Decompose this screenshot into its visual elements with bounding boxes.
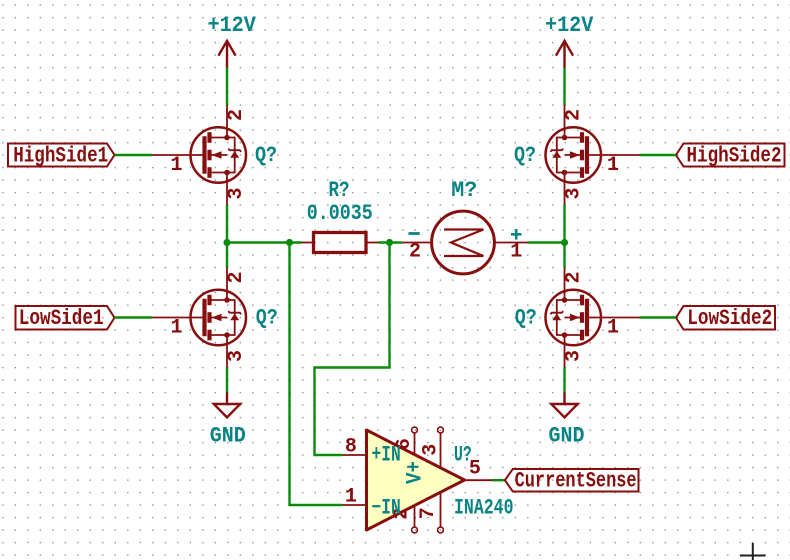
wire +12V to Q1 drain [226, 68, 228, 106]
transistor Q4 low-side right (mirrored) [546, 268, 640, 368]
junction node bus-left [223, 239, 230, 246]
global label HighSide1 [8, 143, 115, 168]
svg-text:GND: GND [210, 424, 246, 449]
svg-text:V+: V+ [403, 461, 428, 484]
power symbol +12V right [545, 13, 594, 68]
wire +12V to Q2 drain [563, 68, 565, 106]
transistor Q2 texts: Q? and pins 1 2 3 [514, 109, 619, 200]
transistor Q3 texts: Q? and pins 1 2 3 [170, 271, 277, 362]
svg-text:LowSide1: LowSide1 [19, 306, 104, 331]
wire Q1 source to bus [226, 205, 228, 243]
op-amp U1 reference U? and value INA240 [454, 443, 514, 521]
op-amp U1 pin numbers 8 1 5 6 3 2 7 [345, 436, 481, 520]
power symbol +12V left [207, 13, 256, 68]
wire Q2 gate to HighSide2 [640, 154, 677, 156]
svg-text:1: 1 [607, 317, 619, 340]
svg-text:2: 2 [409, 241, 421, 264]
wire sense left: resistor left terminal down to op-amp -IN [290, 243, 343, 506]
junction node bus-right [561, 239, 568, 246]
transistor Q1 high-side left [152, 105, 246, 205]
svg-text:3: 3 [225, 350, 248, 362]
wire resistor right to motor [378, 241, 402, 243]
svg-text:1: 1 [170, 154, 182, 177]
svg-text:2: 2 [225, 271, 248, 283]
op-amp U1 pin 5 line [465, 479, 493, 481]
svg-text:1: 1 [510, 241, 522, 264]
op-amp U1 INA240 body [367, 430, 465, 530]
motor M1 [402, 211, 528, 274]
wire bus left segment [227, 241, 302, 243]
wire Q4 source to GND [563, 368, 565, 393]
svg-text:HighSide2: HighSide2 [687, 143, 782, 168]
svg-text:LowSide2: LowSide2 [687, 306, 772, 331]
transistor Q4 texts: Q? and pins 1 2 3 [515, 271, 619, 362]
svg-text:HighSide1: HighSide1 [13, 143, 108, 168]
svg-text:INA240: INA240 [454, 496, 514, 521]
ground right [549, 393, 585, 449]
junction node resistor-right [386, 239, 393, 246]
svg-text:3: 3 [563, 187, 586, 199]
wire sense right: resistor right terminal to op-amp +IN [315, 243, 390, 456]
svg-text:Q?: Q? [515, 305, 537, 330]
svg-text:2: 2 [225, 109, 248, 121]
op-amp U1 pin 6 stub with unconnected circle [412, 427, 418, 454]
svg-text:1: 1 [345, 486, 357, 509]
junction node resistor-left [286, 239, 293, 246]
global label CurrentSense [505, 469, 639, 494]
wire motor to right bus [528, 241, 565, 243]
svg-text:0.0035: 0.0035 [307, 201, 373, 226]
wire op-amp output to CurrentSense [492, 479, 505, 481]
wire LowSide1 to Q3 gate [115, 316, 153, 318]
svg-text:Q?: Q? [514, 143, 536, 168]
transistor Q2 high-side right (mirrored) [546, 105, 640, 205]
wire Q3 source to GND [226, 368, 228, 393]
wire bus to Q4 drain [563, 243, 565, 268]
svg-text:Q?: Q? [255, 143, 277, 168]
svg-text:U?: U? [454, 443, 472, 468]
global label LowSide1 [16, 306, 115, 331]
resistor R1 shunt 0.0035 [302, 233, 379, 253]
svg-text:1: 1 [607, 154, 619, 177]
global label LowSide2 [676, 306, 775, 331]
global label HighSide2 [676, 143, 785, 168]
svg-text:2: 2 [563, 271, 586, 283]
svg-text:3: 3 [225, 187, 248, 199]
svg-text:1: 1 [170, 317, 182, 340]
op-amp U1 pin names +IN -IN V+ [372, 443, 428, 521]
svg-text:2: 2 [563, 109, 586, 121]
svg-text:+12V: +12V [545, 13, 594, 38]
cursor crosshair [740, 543, 766, 560]
svg-text:M?: M? [451, 178, 477, 203]
resistor R1 texts R? 0.0035 [307, 178, 373, 226]
svg-text:−IN: −IN [372, 496, 401, 521]
svg-text:3: 3 [420, 444, 443, 456]
wire Q4 gate to LowSide2 [640, 316, 677, 318]
svg-text:+IN: +IN [372, 443, 401, 468]
op-amp U1 pin 2 stub with unconnected circle [412, 506, 418, 533]
svg-text:8: 8 [345, 436, 357, 459]
svg-text:3: 3 [563, 350, 586, 362]
svg-text:R?: R? [329, 178, 350, 203]
ground left [210, 393, 246, 449]
op-amp U1 pin 3 stub with unconnected circle [438, 427, 444, 467]
svg-text:+12V: +12V [207, 13, 256, 38]
transistor Q3 low-side left [152, 268, 246, 368]
svg-text:Q?: Q? [256, 305, 278, 330]
op-amp U1 pin 7 stub with unconnected circle [438, 493, 444, 533]
motor M1 texts: M? minus 2 plus 1 [409, 178, 523, 264]
svg-text:CurrentSense: CurrentSense [515, 469, 637, 494]
wire Q2 source down to bus [563, 205, 565, 243]
op-amp U1 pin 8 line [342, 454, 367, 456]
transistor Q1 texts: Q? and pins 1 2 3 [170, 109, 277, 200]
op-amp U1 pin 1 line [342, 504, 367, 506]
svg-text:GND: GND [549, 424, 585, 449]
wire bus to Q3 drain [226, 243, 228, 268]
wire HighSide1 to Q1 gate [115, 154, 153, 156]
svg-text:7: 7 [417, 507, 440, 519]
